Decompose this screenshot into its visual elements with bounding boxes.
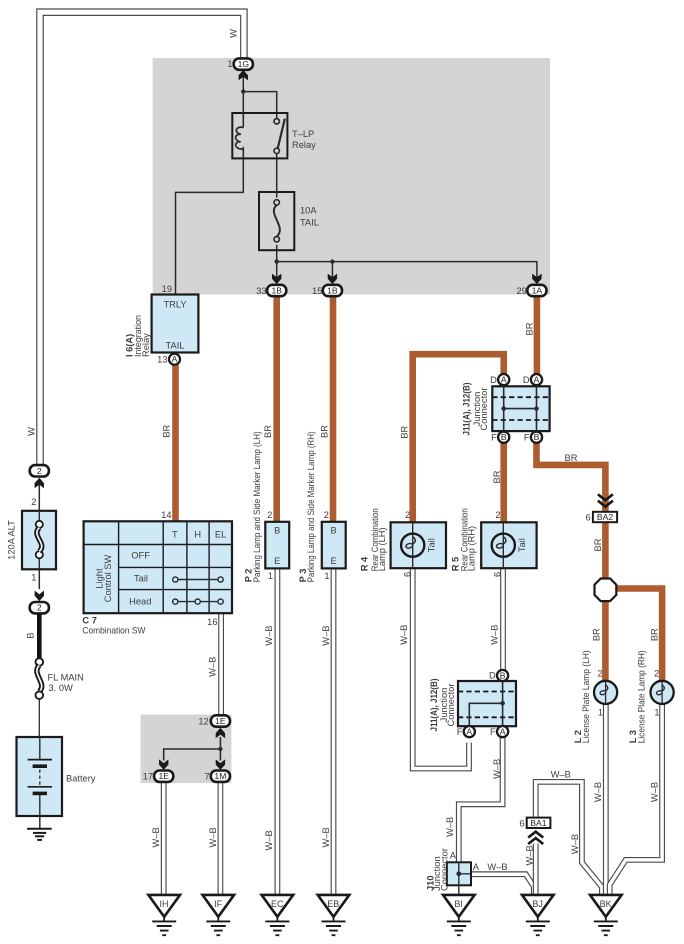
wire rail branch to 15(1B)	[331, 262, 333, 278]
svg-text:BR: BR	[565, 453, 578, 463]
svg-text:J11(A), J12(B): J11(A), J12(B)	[461, 383, 471, 436]
svg-text:T–LP: T–LP	[292, 129, 314, 139]
svg-text:A: A	[501, 375, 507, 385]
connector 33 1B	[256, 274, 286, 297]
svg-text:B: B	[274, 525, 280, 535]
svg-text:1B: 1B	[271, 286, 282, 296]
wire W-B connector 7(1M) to ground IF	[217, 782, 223, 894]
combination switch C 7	[82, 510, 232, 636]
svg-text:2: 2	[654, 669, 659, 679]
svg-text:A: A	[450, 851, 457, 861]
svg-text:W–B: W–B	[570, 834, 580, 854]
wire W-B L3 loop to ground BK	[610, 704, 662, 895]
wire BR integration relay TAIL(A) to combination SW pin 14	[172, 365, 179, 522]
wire BR R4 pin 2 up and over to junction connector A	[413, 354, 504, 522]
svg-text:6: 6	[493, 572, 503, 577]
svg-text:1: 1	[654, 707, 659, 717]
wire BR BA2 to splice octagon	[602, 522, 609, 579]
svg-text:B: B	[500, 671, 506, 681]
wire FL MAIN to battery	[38, 699, 40, 737]
svg-text:B: B	[501, 432, 507, 442]
svg-text:D: D	[489, 671, 496, 681]
wire W feed loop from alternator to 1G (double line)	[40, 12, 244, 465]
node rail junction at 33(1B)	[275, 259, 279, 263]
connector 29 1A	[516, 274, 546, 297]
svg-text:F: F	[524, 432, 530, 442]
wire W-B J10 pin A to ground BJ	[471, 874, 534, 894]
svg-text:A: A	[466, 727, 472, 737]
svg-text:W–B: W–B	[321, 626, 331, 646]
connector 6 BA2 with chevrons	[586, 494, 618, 522]
svg-text:B: B	[330, 525, 336, 535]
ground BK	[590, 895, 622, 935]
svg-text:15: 15	[312, 286, 322, 296]
svg-text:A: A	[500, 727, 506, 737]
svg-text:2: 2	[31, 497, 36, 507]
svg-text:Parking Lamp and Side Marker L: Parking Lamp and Side Marker Lamp (LH)	[252, 431, 262, 582]
svg-text:10A: 10A	[300, 206, 317, 216]
svg-text:1: 1	[598, 707, 603, 717]
node rail junction at 15(1B)	[330, 259, 334, 263]
svg-text:Battery: Battery	[66, 774, 96, 784]
svg-text:Lamp (LH): Lamp (LH)	[377, 527, 387, 571]
wire W-B P2 pin E to ground EC	[274, 569, 280, 895]
svg-text:TRLY: TRLY	[163, 300, 186, 310]
svg-text:W: W	[26, 427, 36, 436]
wire BR splice to L2	[602, 601, 609, 682]
connector 1 1G	[227, 58, 252, 80]
ground EB	[318, 895, 350, 935]
svg-text:B: B	[534, 432, 540, 442]
license plate lamp L 2 (LH)	[573, 650, 617, 743]
svg-text:BR: BR	[263, 425, 273, 438]
svg-text:2: 2	[37, 603, 42, 613]
svg-text:Relay: Relay	[292, 140, 316, 150]
svg-text:Parking Lamp and Side Marker L: Parking Lamp and Side Marker Lamp (RH)	[306, 431, 316, 582]
svg-text:12: 12	[198, 716, 208, 726]
svg-text:W–B: W–B	[649, 782, 659, 802]
relay block (gray box)	[153, 58, 550, 295]
wire fuse bottom to distribution rail	[276, 245, 278, 278]
connector 2 (alternator output)	[30, 465, 49, 488]
svg-text:1A: 1A	[532, 286, 543, 296]
svg-text:B: B	[25, 632, 35, 638]
svg-text:E: E	[274, 556, 280, 566]
wire W-B BA1 down to ground BJ	[533, 844, 539, 895]
svg-text:6: 6	[519, 818, 524, 828]
rear combination lamp R 4 (LH)	[359, 508, 446, 577]
svg-text:BR: BR	[524, 322, 534, 335]
svg-text:A: A	[172, 354, 178, 364]
svg-text:7: 7	[205, 772, 210, 782]
wire BR 15(1B) to P3 pin B	[330, 297, 337, 523]
connector 6 BA1 with chevrons	[519, 818, 550, 844]
integration relay I 6(A) TRLY/TAIL box	[124, 284, 198, 357]
junction connector J10	[425, 848, 479, 894]
svg-text:W–B: W–B	[524, 845, 534, 865]
ground EC	[262, 895, 294, 935]
svg-text:6: 6	[586, 513, 591, 523]
svg-text:H: H	[194, 529, 201, 539]
svg-text:1G: 1G	[238, 59, 250, 69]
svg-text:1E: 1E	[215, 716, 226, 726]
svg-text:EC: EC	[271, 899, 284, 909]
svg-text:Lamp (RH): Lamp (RH)	[466, 526, 476, 571]
wire W-B connector 17(1E) to ground IH	[161, 782, 167, 894]
wire relay switch to fuse 10A TAIL	[276, 153, 278, 198]
svg-text:IH: IH	[160, 899, 169, 909]
svg-text:D: D	[490, 375, 497, 385]
connector 15 1B	[312, 274, 342, 297]
svg-text:TAIL: TAIL	[300, 218, 319, 228]
svg-text:Head: Head	[129, 596, 151, 606]
svg-text:1B: 1B	[327, 286, 338, 296]
fusible link FL MAIN 3.0W	[36, 658, 84, 699]
svg-text:W–B: W–B	[551, 770, 571, 780]
svg-text:Tail: Tail	[426, 538, 436, 552]
svg-text:1: 1	[31, 573, 36, 583]
svg-text:Tail: Tail	[517, 538, 527, 552]
parking lamp P 3 (RH)	[298, 431, 345, 582]
wire from 1G connector to relay junction	[242, 70, 244, 91]
svg-text:2: 2	[405, 510, 410, 520]
wire W-B BA1 up loop to ground BK	[536, 782, 602, 894]
svg-text:W–B: W–B	[264, 830, 274, 850]
svg-text:2: 2	[324, 510, 329, 520]
svg-text:F: F	[457, 727, 463, 737]
svg-text:2: 2	[495, 510, 500, 520]
wire fuse to connector 2	[38, 569, 40, 589]
ground BJ	[522, 895, 554, 935]
svg-text:W–B: W–B	[208, 657, 218, 677]
wire BR junction connector B down to R5 pin 2	[500, 443, 507, 523]
ground BI	[443, 895, 475, 935]
svg-text:1: 1	[324, 571, 329, 581]
svg-text:BA2: BA2	[597, 512, 613, 522]
svg-text:BR: BR	[400, 425, 410, 438]
svg-text:BR: BR	[492, 470, 502, 483]
svg-text:33: 33	[256, 286, 266, 296]
svg-text:W–B: W–B	[490, 625, 500, 645]
svg-text:EL: EL	[215, 529, 226, 539]
wire BR junction connector B to BA2	[537, 443, 606, 512]
svg-text:F: F	[490, 727, 496, 737]
svg-text:120A ALT: 120A ALT	[6, 520, 16, 560]
svg-text:29: 29	[516, 286, 526, 296]
rear combination lamp R 5 (RH)	[450, 508, 536, 577]
svg-text:Relay: Relay	[141, 333, 151, 357]
svg-text:Connector: Connector	[446, 684, 456, 727]
svg-text:D: D	[523, 375, 530, 385]
svg-text:BR: BR	[649, 628, 659, 641]
svg-text:Combination SW: Combination SW	[82, 625, 145, 635]
svg-text:J11(A), J12(B): J11(A), J12(B)	[429, 679, 439, 732]
connector 12 1E	[198, 715, 230, 738]
svg-text:Control SW: Control SW	[103, 555, 113, 603]
svg-text:BR: BR	[162, 424, 172, 437]
svg-text:W–B: W–B	[593, 782, 603, 802]
wire junction to relay switch side	[243, 92, 276, 119]
svg-text:BA1: BA1	[530, 818, 546, 828]
wire W-B junction connector F(A) down to J10	[459, 737, 503, 862]
fusible link 120A ALT	[6, 497, 56, 583]
pin 13 A terminal of integration relay	[157, 354, 180, 365]
svg-text:6: 6	[403, 572, 413, 577]
wire W-B R4 pin 6 loop to junction connector F(A)	[413, 569, 469, 769]
svg-text:C 7: C 7	[82, 616, 96, 626]
wire connector to 120A ALT fuse	[38, 485, 40, 512]
svg-text:BR: BR	[591, 628, 601, 641]
wire BR splice to L3	[616, 589, 662, 682]
svg-text:A: A	[534, 375, 540, 385]
svg-text:2: 2	[267, 510, 272, 520]
wire junction down into relay coil	[242, 92, 244, 119]
svg-text:T: T	[172, 529, 178, 539]
T-LP relay U1	[232, 113, 316, 158]
svg-text:1M: 1M	[214, 771, 226, 781]
svg-text:F: F	[491, 432, 497, 442]
ground below battery	[27, 816, 52, 840]
svg-text:BR: BR	[593, 538, 603, 551]
junction connector J11(A) J12(B) upper	[461, 374, 549, 443]
svg-text:W–B: W–B	[208, 827, 218, 847]
node junction dot 1E area	[218, 747, 222, 751]
svg-text:License Plate Lamp (LH): License Plate Lamp (LH)	[581, 650, 591, 743]
svg-text:Connector: Connector	[479, 388, 489, 431]
svg-text:W–B: W–B	[151, 827, 161, 847]
svg-text:W–B: W–B	[264, 626, 274, 646]
svg-text:19: 19	[162, 284, 172, 294]
svg-text:OFF: OFF	[131, 551, 150, 561]
svg-text:16: 16	[207, 617, 217, 627]
parking lamp P 2 (LH)	[244, 431, 290, 582]
svg-text:BK: BK	[600, 899, 612, 909]
svg-text:BJ: BJ	[532, 899, 543, 909]
svg-text:TAIL: TAIL	[166, 341, 185, 351]
svg-text:1: 1	[227, 59, 232, 69]
svg-text:BI: BI	[454, 899, 463, 909]
svg-text:1E: 1E	[158, 771, 169, 781]
node junction below 1G	[241, 89, 245, 93]
connector 2 (to battery feed)	[30, 591, 49, 614]
junction connector J11(A) J12(B) lower	[429, 670, 516, 737]
svg-text:17: 17	[143, 772, 153, 782]
svg-text:W–B: W–B	[445, 817, 455, 837]
wire 1E junction to 17(1E) and 7(1M)	[164, 737, 221, 761]
wire relay coil out to integration relay pin 19	[176, 147, 244, 295]
wire W-B combination SW pin 16 to connector 12(1E)	[218, 614, 224, 714]
wire BR 33(1B) to P2 pin B	[273, 297, 280, 523]
connector 17 1E	[143, 759, 174, 782]
wire W-B R5 pin 6 to junction connector D(B)	[500, 569, 506, 671]
fuse 10A TAIL	[259, 192, 319, 250]
svg-text:2: 2	[37, 466, 42, 476]
svg-text:W–B: W–B	[321, 827, 331, 847]
battery	[17, 737, 96, 816]
wire W-B L2 to ground BK	[603, 704, 609, 895]
wire BR 29(1A) to junction connector A	[534, 297, 541, 376]
svg-text:W–B: W–B	[399, 625, 409, 645]
svg-text:Connector: Connector	[440, 848, 450, 891]
connector 7 1M	[205, 759, 230, 782]
ground IH	[148, 895, 180, 935]
svg-text:2: 2	[597, 669, 602, 679]
svg-text:IF: IF	[214, 899, 223, 909]
svg-text:BR: BR	[320, 425, 330, 438]
gray box 1E/1M junction area	[141, 715, 232, 784]
svg-text:License Plate Lamp (RH): License Plate Lamp (RH)	[637, 650, 647, 743]
svg-text:W–B: W–B	[487, 862, 507, 872]
svg-text:14: 14	[161, 510, 171, 520]
svg-text:1: 1	[268, 571, 273, 581]
wire W-B P3 pin E to ground EB	[331, 569, 337, 895]
license plate lamp L 3 (RH)	[628, 650, 674, 743]
svg-text:3. 0W: 3. 0W	[49, 683, 74, 693]
wire B thick black battery feed	[37, 614, 42, 658]
svg-text:W–B: W–B	[492, 759, 502, 779]
ground IF	[203, 895, 235, 935]
svg-text:A: A	[473, 862, 480, 872]
svg-text:EB: EB	[327, 899, 339, 909]
svg-text:FL MAIN: FL MAIN	[48, 673, 84, 683]
node splice octagon	[595, 579, 617, 602]
svg-text:W: W	[228, 29, 238, 38]
svg-text:R 4: R 4	[359, 556, 369, 571]
svg-text:E: E	[330, 556, 336, 566]
svg-text:13: 13	[157, 355, 167, 365]
svg-text:Tail: Tail	[134, 574, 148, 584]
wire distribution rail to 1B 1B 1A	[277, 262, 537, 278]
